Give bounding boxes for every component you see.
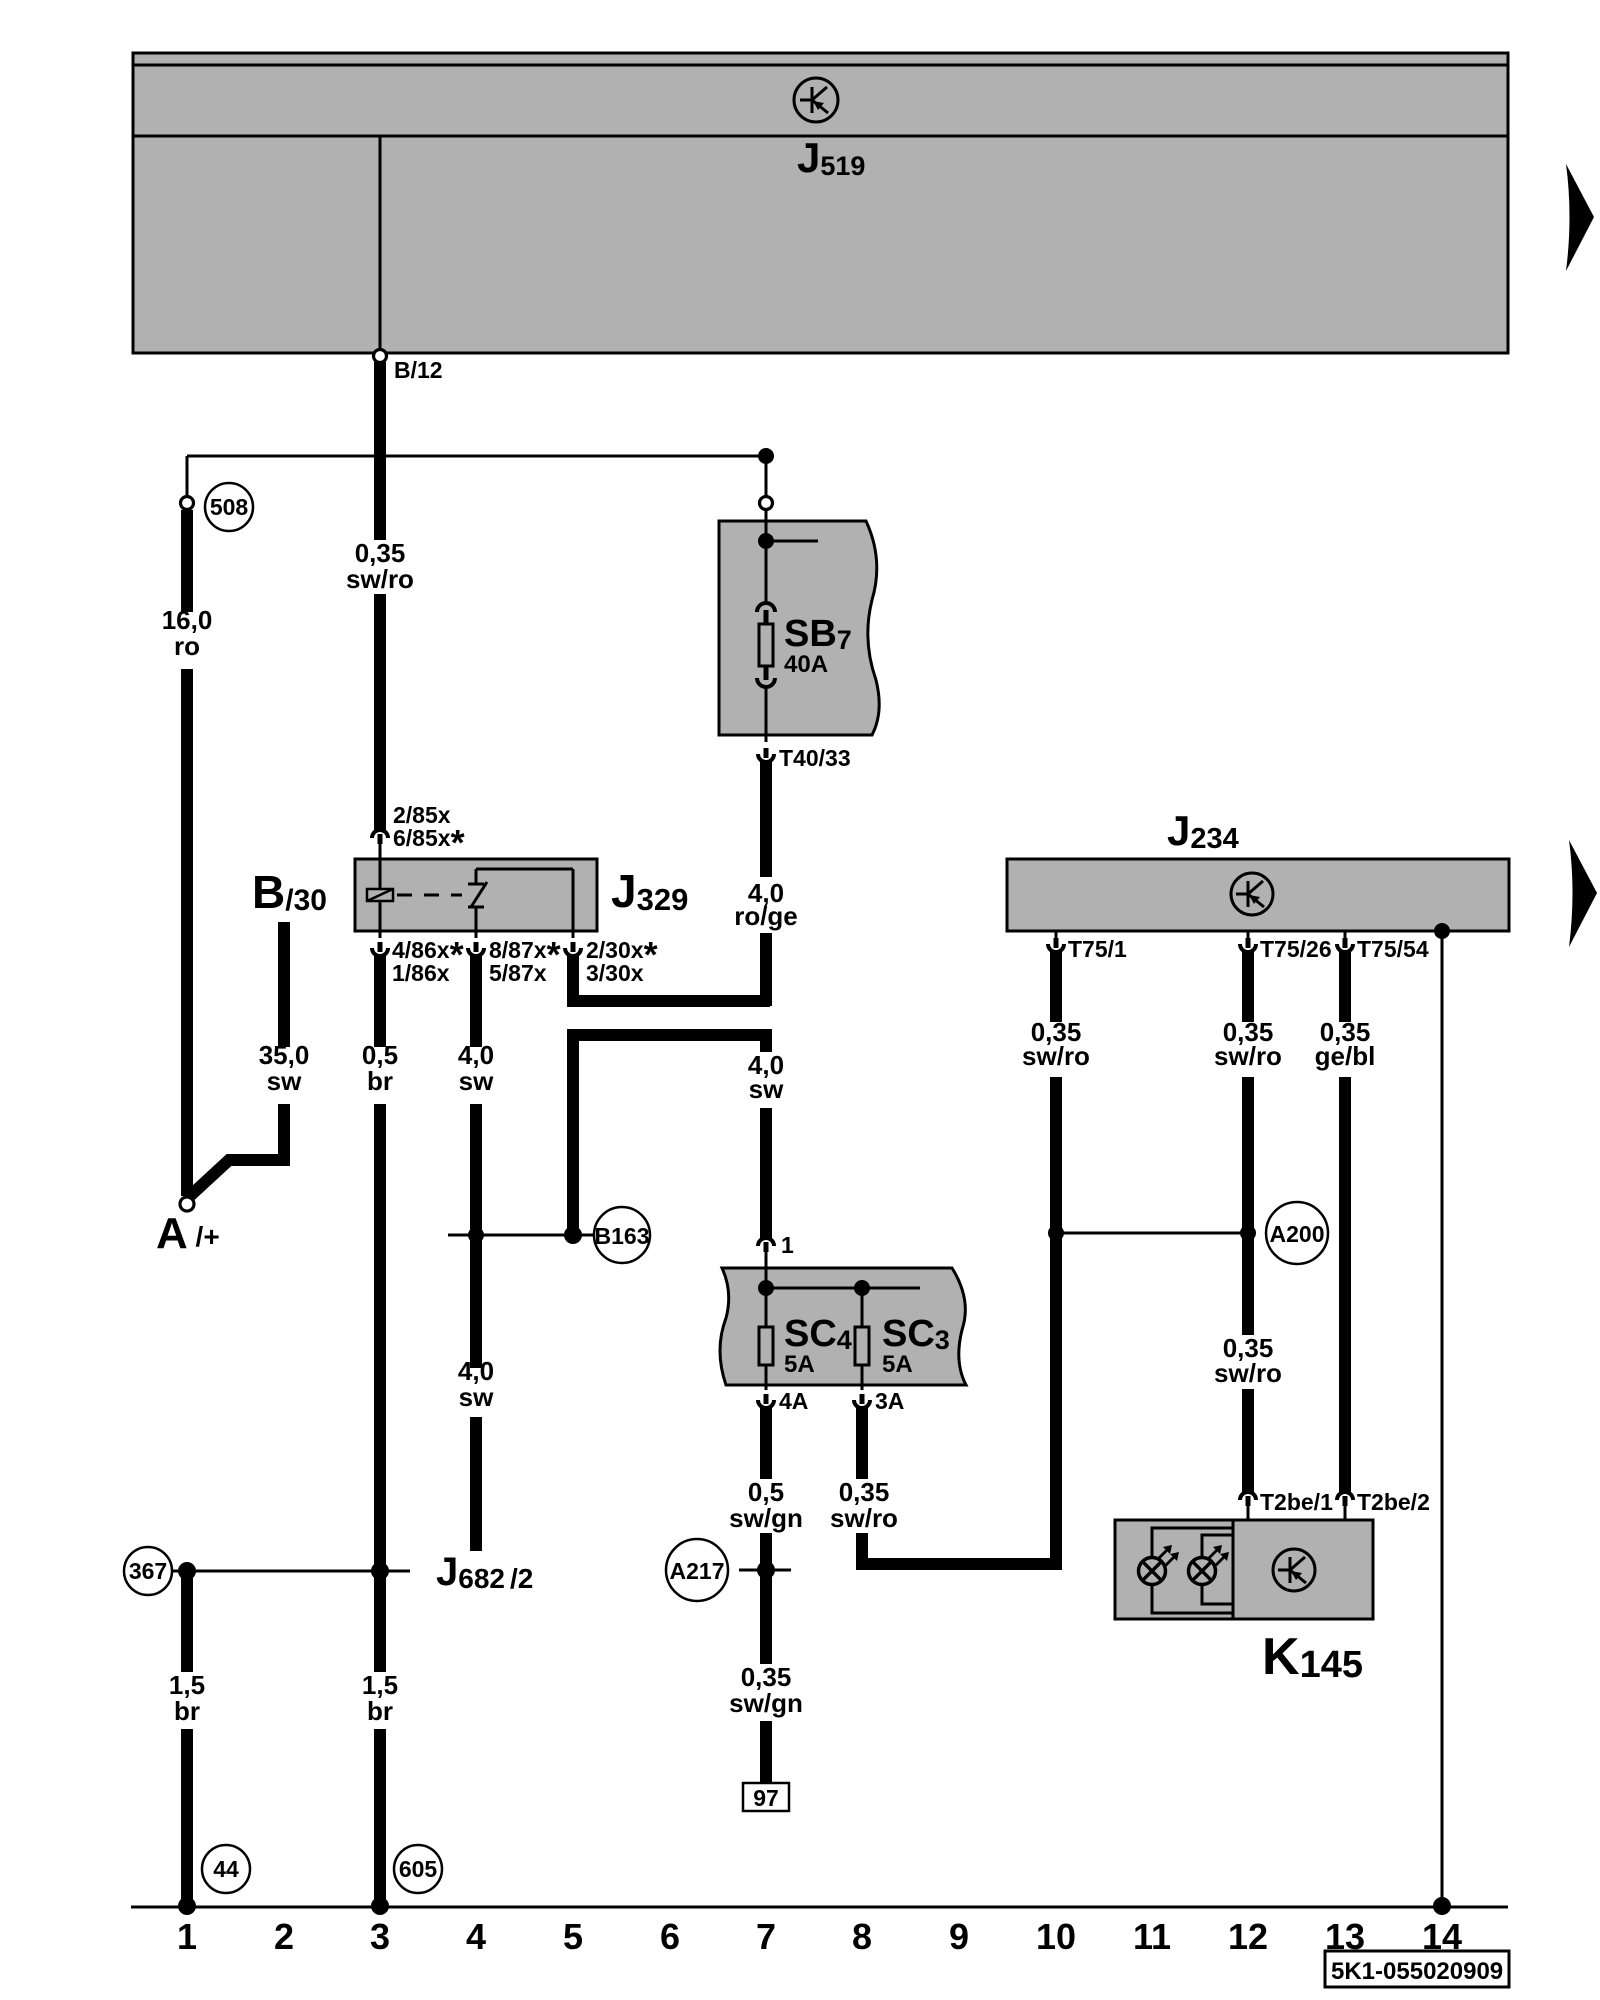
control unit J519 box — [133, 53, 1508, 353]
sheet number 5K1-055020909 — [1325, 1951, 1509, 1987]
junction above SB7 — [758, 448, 774, 464]
lamp unit K145 left box — [1115, 1520, 1233, 1619]
wire B163 link — [573, 1035, 766, 1235]
terminal T40/33 — [758, 748, 774, 762]
control unit symbol in J519 — [794, 78, 838, 122]
wire T75/1 upper — [1050, 952, 1062, 1022]
junction A200 col10 — [1048, 1225, 1064, 1241]
label 0,5 br — [362, 1040, 398, 1096]
wire 0,35 sw/ro from SC3 — [856, 1408, 868, 1479]
svg-text:40A: 40A — [784, 651, 828, 678]
wire elbow col8 to col10 — [862, 1533, 1056, 1564]
wire col4 middle — [470, 1104, 482, 1368]
svg-text:12: 12 — [1228, 1916, 1268, 1957]
svg-text:sw: sw — [459, 1066, 494, 1096]
svg-text:A200: A200 — [1270, 1221, 1325, 1247]
svg-text:sw/gn: sw/gn — [729, 1688, 803, 1718]
svg-text:8: 8 — [852, 1916, 872, 1957]
relay coil — [367, 844, 393, 931]
junction A217 — [757, 1561, 775, 1579]
label 4,0 sw — [458, 1040, 494, 1096]
label 35,0 sw — [259, 1040, 310, 1096]
wire col10 long — [1050, 1077, 1062, 1570]
svg-text:br: br — [367, 1696, 393, 1726]
svg-text:T2be/2: T2be/2 — [1357, 1489, 1430, 1515]
svg-text:T2be/1: T2be/1 — [1260, 1489, 1333, 1515]
control unit J234 box — [1007, 859, 1509, 931]
svg-text:ro/ge: ro/ge — [734, 901, 798, 931]
svg-text:2: 2 — [274, 1916, 294, 1957]
terminal B/12 — [374, 350, 443, 384]
svg-text:5K1-055020909: 5K1-055020909 — [1331, 1958, 1503, 1985]
wire stub to terminal 508 — [186, 456, 189, 497]
wire inside J519 to pin B/12 — [379, 137, 382, 351]
wire col3 long — [374, 1104, 386, 1672]
label 16,0 ro — [162, 605, 213, 661]
label 0,35 sw/ro col10 — [1022, 1017, 1090, 1071]
wire 0,5 sw/gn upper — [760, 1408, 772, 1479]
wire 4,0 ro/ge lower — [760, 933, 772, 1006]
svg-text:5A: 5A — [784, 1351, 815, 1378]
terminal circle above SB7 — [760, 497, 773, 510]
node line 367 — [172, 1570, 410, 1573]
label 4,0 sw lower — [458, 1356, 494, 1412]
svg-text:1/86x: 1/86x — [392, 960, 450, 986]
svg-text:6: 6 — [660, 1916, 680, 1957]
label 0,35 sw/ro col12 — [1214, 1017, 1282, 1071]
wire col12 to K145 — [1242, 1389, 1254, 1492]
ground junction col1 — [178, 1897, 196, 1915]
wire relay 30x to SB7 column — [573, 956, 770, 1001]
fuse SC4 — [759, 1327, 773, 1390]
lamp unit K145 right box — [1233, 1520, 1373, 1619]
wire col4 end — [470, 1417, 482, 1551]
svg-text:sw: sw — [459, 1382, 494, 1412]
terminal circle col1 — [181, 497, 194, 510]
relay pin 87 terminal — [468, 931, 484, 956]
svg-text:7: 7 — [756, 1916, 776, 1957]
wire 16,0 ro upper — [181, 510, 193, 612]
label SC3 5A — [882, 1313, 950, 1378]
node label 44 — [202, 1845, 250, 1893]
svg-text:sw/ro: sw/ro — [1214, 1358, 1282, 1388]
ground junction col14 — [1433, 1897, 1451, 1915]
K145 inner frame 1 — [1152, 1528, 1233, 1613]
svg-text:3: 3 — [370, 1916, 390, 1957]
ground junction col3 — [371, 1897, 389, 1915]
svg-text:3/30x: 3/30x — [586, 960, 644, 986]
label SB7 40A — [784, 613, 852, 678]
terminal T75/26 — [1240, 931, 1256, 952]
svg-text:367: 367 — [129, 1558, 167, 1584]
lamp 1 — [1139, 1545, 1180, 1585]
label 1,5 br col3 — [362, 1670, 398, 1726]
junction J234 to col14 — [1434, 923, 1450, 939]
svg-text:sw/gn: sw/gn — [729, 1503, 803, 1533]
relay pin 30 terminal — [565, 931, 581, 956]
fuse box SB7 — [719, 521, 879, 735]
wire 35,0 sw upper — [278, 922, 290, 1047]
svg-text:3A: 3A — [875, 1388, 904, 1414]
svg-text:A217: A217 — [670, 1558, 725, 1584]
node label A200 — [1266, 1202, 1328, 1264]
control unit symbol in K145 — [1273, 1549, 1315, 1591]
relay J329 box — [355, 859, 597, 931]
ground rail — [131, 1906, 1508, 1909]
wire 0,35 sw/ro upper — [374, 362, 386, 540]
terminal 1 on SC box — [758, 1238, 774, 1268]
label 4,0 ro/ge — [734, 878, 798, 931]
wire node line from col1 to SB7 — [187, 455, 770, 458]
label 0,35 sw/gn — [729, 1662, 803, 1718]
terminal T2be/2 — [1337, 1492, 1353, 1520]
node label 508 — [205, 483, 253, 531]
svg-text:T75/1: T75/1 — [1068, 936, 1127, 962]
junction B163 line — [468, 1227, 484, 1243]
wire col14 — [1441, 931, 1444, 1905]
terminal T2be/1 — [1240, 1492, 1256, 1520]
wire col12 middle — [1242, 1077, 1254, 1335]
svg-text:11: 11 — [1133, 1916, 1171, 1957]
label 0,35 sw/ro col12 lower — [1214, 1333, 1282, 1388]
fuse element SB7 — [757, 603, 775, 742]
svg-text:br: br — [174, 1696, 200, 1726]
wire 16,0 ro lower — [181, 669, 193, 1196]
wire 0,5 br below pin 86 — [374, 956, 386, 1047]
svg-text:sw: sw — [749, 1074, 784, 1104]
wire 35,0 sw elbow to A/+ — [190, 1104, 284, 1196]
svg-text:T75/26: T75/26 — [1260, 936, 1332, 962]
junction B163 — [564, 1226, 582, 1244]
terminal A/+ — [156, 1197, 220, 1258]
terminal T75/1 — [1048, 931, 1064, 952]
svg-text:ro: ro — [174, 631, 200, 661]
svg-text:9: 9 — [949, 1916, 969, 1957]
fuse SC3 — [855, 1327, 869, 1390]
terminal 4A — [758, 1394, 774, 1408]
direction arrow right middle — [1569, 840, 1597, 947]
svg-text:B/12: B/12 — [394, 357, 443, 383]
svg-text:ge/bl: ge/bl — [1315, 1041, 1376, 1071]
wire 4,0 ro/ge upper — [760, 762, 772, 877]
junction col1 367 — [178, 1562, 196, 1580]
svg-text:br: br — [367, 1066, 393, 1096]
node label B163 — [594, 1207, 650, 1263]
wire col7 to SC fuse — [760, 1108, 772, 1238]
node line B163 — [448, 1234, 595, 1237]
junction J682/2 — [371, 1562, 389, 1580]
wire 4,0 sw below pin 87 — [470, 956, 482, 1047]
node tick A217 — [739, 1569, 791, 1572]
svg-text:4A: 4A — [779, 1388, 808, 1414]
label 4,0 sw col7 — [748, 1050, 784, 1104]
svg-text:10: 10 — [1036, 1916, 1076, 1957]
wire T75/54 upper — [1339, 952, 1351, 1022]
terminal 3A — [854, 1394, 870, 1408]
pin labels 2/85x 6/85x — [393, 802, 465, 863]
wire through A217 — [760, 1533, 772, 1664]
fuse box SC4 SC3 — [720, 1268, 966, 1385]
svg-text:sw/ro: sw/ro — [1022, 1041, 1090, 1071]
wire stub above SB7 — [765, 456, 768, 497]
svg-text:1: 1 — [781, 1232, 794, 1258]
label 0,35 sw/ro — [346, 538, 414, 594]
node label 605 — [394, 1845, 442, 1893]
svg-text:T75/54: T75/54 — [1357, 936, 1429, 962]
svg-text:97: 97 — [753, 1785, 779, 1811]
svg-text:T40/33: T40/33 — [779, 745, 851, 771]
label 1,5 br col1 — [169, 1670, 205, 1726]
SC internal node — [758, 1268, 920, 1327]
label 0,35 ge/bl — [1315, 1017, 1376, 1071]
node label A217 — [666, 1539, 728, 1601]
relay switch — [468, 869, 573, 931]
wire col13 long — [1339, 1077, 1351, 1492]
lamp 2 — [1189, 1545, 1230, 1585]
control unit symbol in J234 — [1231, 873, 1273, 915]
pin labels 4/86x 1/86x — [392, 934, 464, 986]
svg-text:B163: B163 — [595, 1223, 650, 1249]
svg-text:508: 508 — [210, 494, 249, 520]
wire 1,5 br col1 upper — [181, 1571, 193, 1672]
svg-text:44: 44 — [213, 1856, 239, 1882]
direction arrow right top — [1566, 164, 1594, 271]
relay actuating dashed link — [397, 894, 462, 897]
node label 367 — [124, 1547, 172, 1595]
pin labels 8/87x 5/87x — [489, 934, 561, 986]
svg-text:4: 4 — [466, 1916, 486, 1957]
terminal T75/54 — [1337, 931, 1353, 952]
svg-text:1: 1 — [177, 1916, 197, 1957]
label 0,5 sw/gn — [729, 1477, 803, 1533]
svg-text:sw/ro: sw/ro — [1214, 1041, 1282, 1071]
svg-text:sw/ro: sw/ro — [830, 1503, 898, 1533]
label SC4 5A — [784, 1313, 852, 1378]
terminal box 97 — [743, 1783, 789, 1811]
relay pin 86 terminal — [372, 931, 388, 956]
grid numbers 1-14 — [177, 1916, 1462, 1957]
svg-text:5A: 5A — [882, 1351, 913, 1378]
wire T75/26 upper — [1242, 952, 1254, 1022]
svg-text:sw/ro: sw/ro — [346, 564, 414, 594]
svg-text:5/87x: 5/87x — [489, 960, 547, 986]
wire 1,5 br col1 lower — [181, 1729, 193, 1905]
label 0,35 sw/ro col8 — [830, 1477, 898, 1533]
wire to relay pin 85 — [374, 594, 386, 830]
SB7 internal node — [758, 510, 818, 603]
svg-text:sw: sw — [267, 1066, 302, 1096]
terminal cup 85 — [372, 830, 388, 844]
K145 inner frame 2 — [1202, 1535, 1233, 1604]
pin labels 2/30x 3/30x — [586, 934, 658, 986]
node line A200 — [1056, 1232, 1248, 1235]
wire to terminal 97 — [760, 1721, 772, 1783]
wire col3 to ground — [374, 1729, 386, 1905]
svg-text:605: 605 — [399, 1856, 438, 1882]
svg-text:5: 5 — [563, 1916, 583, 1957]
junction A200 col12 — [1240, 1225, 1256, 1241]
